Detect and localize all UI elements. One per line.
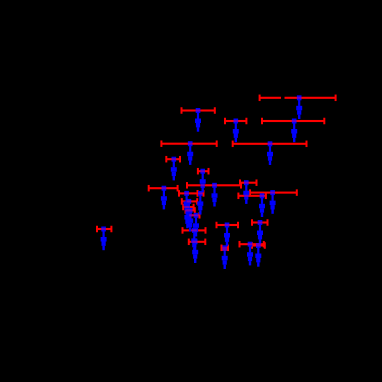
data point P4: down-arrow (upper limit) [293,123,295,129]
data point P3: down-arrow (upper limit) [298,100,300,106]
data point P24: marker [248,242,253,247]
data point P6: left cap [160,140,162,147]
data point P7: left cap [165,156,167,163]
data point P11: right cap [197,190,199,197]
data point P1: left cap [181,107,183,114]
data point P2: down-arrow (upper limit) [235,123,237,129]
arrow/bar crossing blend at (258.3,244.2) [256,243,261,245]
data point P14: left cap [197,190,199,197]
data point P0: bar-over-marker blend [101,228,106,230]
data point P16: bar-over-marker blend [260,195,265,197]
data point P18: marker [188,208,193,213]
data point P7: x error bar [166,158,180,160]
data point P22: marker [225,223,230,228]
data point P14: x error bar [198,192,204,194]
data point P9: bar-over-marker blend [162,187,167,189]
data point P13: x error bar [183,206,193,208]
data point P20: bar-over-marker blend [192,229,197,231]
data point P6: marker [188,141,193,146]
data point P26: bar-over-marker blend [256,244,261,246]
data point P25: x error bar [222,247,229,249]
data point P5: down-arrow (upper limit) [269,146,271,152]
data point P26: down-arrow (upper limit) [257,247,259,253]
data point P16: left cap [237,193,239,200]
data point P3: x error bar [260,97,281,99]
data point P7: bar-over-marker blend [172,158,177,160]
data point P4: marker [292,119,297,124]
data point P11: marker [184,191,189,196]
data point P17: x error bar [250,192,297,194]
data point P9: right cap [177,185,179,192]
data point P2: x error bar [225,120,246,122]
data point P0: x error bar [97,228,111,230]
arrow/bar crossing blend at (202.7,185.3) [201,184,205,186]
data point P12: right cap [196,198,198,205]
data point P2: left cap [224,118,226,125]
data point P17: left cap [249,189,251,196]
data point P19: marker [194,213,199,218]
data point P10: left cap [186,182,188,189]
data point P15: marker [244,180,249,185]
data point P13: marker [185,205,190,210]
data point P0: right cap [110,226,112,233]
data point P18: bar-over-marker blend [188,209,193,211]
arrow/bar crossing blend at (194.3,241.8) [192,241,196,243]
data point P17: down-arrow (upper limit) [272,194,274,200]
data point P11: left cap [178,190,180,197]
data point P17: marker [270,190,275,195]
data point P8: marker [200,169,205,174]
data point P10: down-arrow (upper limit) [213,187,215,193]
data point P0: marker [101,227,106,232]
data point P4: left cap [261,118,263,125]
data point P19: bar-over-marker blend [194,214,199,216]
data point P19: x error bar [191,214,200,216]
data point P26: left cap [251,242,253,249]
data point P5: x error bar [233,143,307,145]
data point P4: right cap [323,118,325,125]
data point P1: right cap [214,107,216,114]
data point P12: down-arrow (upper limit) [188,203,190,209]
data point P2: bar-over-marker blend [234,120,239,122]
data point P9: left cap [148,185,150,192]
data point P23: left cap [251,219,253,226]
data point P11: down-arrow (upper limit) [186,195,188,201]
data point P3: left cap [259,95,261,102]
data point P21: bar-over-marker blend [193,241,198,243]
data point P19: down-arrow (upper limit) [195,217,197,223]
data point P25: bar-over-marker blend [222,247,227,249]
data point P23: down-arrow (upper limit) [259,224,261,230]
data point P19: left cap [190,212,192,219]
data point P25: left cap [221,245,223,252]
data point P6: right cap [216,140,218,147]
data point P17: right cap [296,189,298,196]
data point P23: right cap [267,219,269,226]
data point P1: marker [196,108,201,113]
data point P10: right cap [240,182,242,189]
data point P20: marker [192,228,197,233]
data point P25: right cap [227,245,229,252]
arrow/bar crossing blend at (187.4,210.4) [186,209,188,211]
data point P22: right cap [237,222,239,229]
data point P1: down-arrow (upper limit) [197,112,199,118]
data point P22: bar-over-marker blend [225,224,230,226]
data point P14: down-arrow (upper limit) [199,195,201,201]
data point P22: down-arrow (upper limit) [226,227,228,233]
data point P13: left cap [182,204,184,211]
data point P26: x error bar [252,244,265,246]
data point P15: left cap [239,179,241,186]
data point P8: x error bar [198,170,209,172]
arrow/bar crossing blend at (188.9,210.4) [186,209,192,211]
data point P21: right cap [204,239,206,246]
data point P10: bar-over-marker blend [212,184,217,186]
data point P2: marker [234,119,239,124]
data point P24: right cap [263,241,265,248]
data point P8: down-arrow (upper limit) [202,173,204,179]
data point P12: x error bar [182,200,197,202]
data point P24: x error bar [240,243,264,245]
data point P1: x error bar [182,109,215,111]
arrow/bar crossing blend at (196.0,230.4) [195,229,198,231]
data point P14: marker [198,191,203,196]
data point P24: left cap [239,241,241,248]
data point P25: marker [222,245,227,250]
data point P20: left cap [182,227,184,234]
data point P25: down-arrow (upper limit) [224,250,226,256]
arrow/bar crossing blend at (246.3,195.8) [244,195,248,197]
data point P0: left cap [96,226,98,233]
data point P18: right cap [194,207,196,214]
data point P19: right cap [199,212,201,219]
data point P7: down-arrow (upper limit) [173,161,175,167]
data point P3: marker [297,95,302,100]
data point P22: x error bar [217,224,239,226]
data point P1: bar-over-marker blend [196,109,201,111]
data point P5: marker [268,141,273,146]
arrow/bar crossing blend at (186.6,210.4) [186,209,188,211]
data point P0: down-arrow (upper limit) [103,231,105,237]
data point P9: x error bar [149,187,178,189]
data point P21: marker [193,239,198,244]
data point P3: right cap [335,95,337,102]
data point P16: marker [260,193,265,198]
data point P15: bar-over-marker blend [244,182,249,184]
data point P7: marker [172,157,177,162]
data point P6: x error bar [161,143,216,145]
data point P18: left cap [185,207,187,214]
data point P5: bar-over-marker blend [268,143,273,145]
data point P9: down-arrow (upper limit) [163,190,165,196]
data point P8: right cap [208,168,210,175]
data point P13: down-arrow (upper limit) [186,209,188,215]
data point P10: x error bar [187,184,241,186]
data point P17: bar-over-marker blend [270,192,275,194]
data point P16: right cap [265,193,267,200]
data point P15: right cap [256,179,258,186]
data point P3: bar-over-marker blend [297,97,302,99]
data point P9: marker [162,186,167,191]
data point P13: bar-over-marker blend [185,206,190,208]
data point P14: bar-over-marker blend [198,192,203,194]
data point P25: extra blend (stacked bar) [222,248,227,251]
data point P23: bar-over-marker blend [258,221,263,223]
data point P16: down-arrow (upper limit) [261,198,263,204]
data point P10: marker [212,183,217,188]
data point P20: down-arrow (upper limit) [193,232,195,238]
data point P21: left cap [188,239,190,246]
data point P5: left cap [232,141,234,148]
data point P26: right cap [264,242,266,249]
data point P16: x error bar [238,195,266,197]
data point P21: down-arrow (upper limit) [194,244,196,250]
arrow/bar crossing blend at (190.9,215.3) [189,214,192,216]
data point P5: right cap [306,141,308,148]
data point P12: bar-over-marker blend [187,200,192,202]
data point P18: x error bar [186,209,195,211]
data point P15: down-arrow (upper limit) [245,185,247,191]
data point P6: down-arrow (upper limit) [189,146,191,152]
data point P23: x error bar [252,221,268,223]
data point P26: marker [256,243,261,248]
data point P15: x error bar [240,182,257,184]
data point P4: x error bar [262,120,324,122]
data point P13: right cap [193,204,195,211]
data point P12: left cap [181,198,183,205]
data point P22: left cap [216,222,218,229]
data point P7: right cap [179,156,181,163]
data point P24: down-arrow (upper limit) [249,246,251,252]
data point P20: right cap [205,227,207,234]
data point P11: x error bar [179,192,198,194]
data point P18: down-arrow (upper limit) [189,212,191,218]
data point P4: bar-over-marker blend [292,120,297,122]
data point P20: x error bar [183,229,206,231]
data point P8: left cap [197,168,199,175]
data point P8: bar-over-marker blend [200,170,205,172]
data point P6: bar-over-marker blend [188,143,193,145]
data point P21: x error bar [189,241,206,243]
data point P23: marker [258,220,263,225]
data point P24: bar-over-marker blend [248,243,253,245]
data point P2: right cap [245,118,247,125]
data point P11: bar-over-marker blend [184,192,189,194]
data point P14: right cap [203,190,205,197]
data point P12: marker [187,199,192,204]
